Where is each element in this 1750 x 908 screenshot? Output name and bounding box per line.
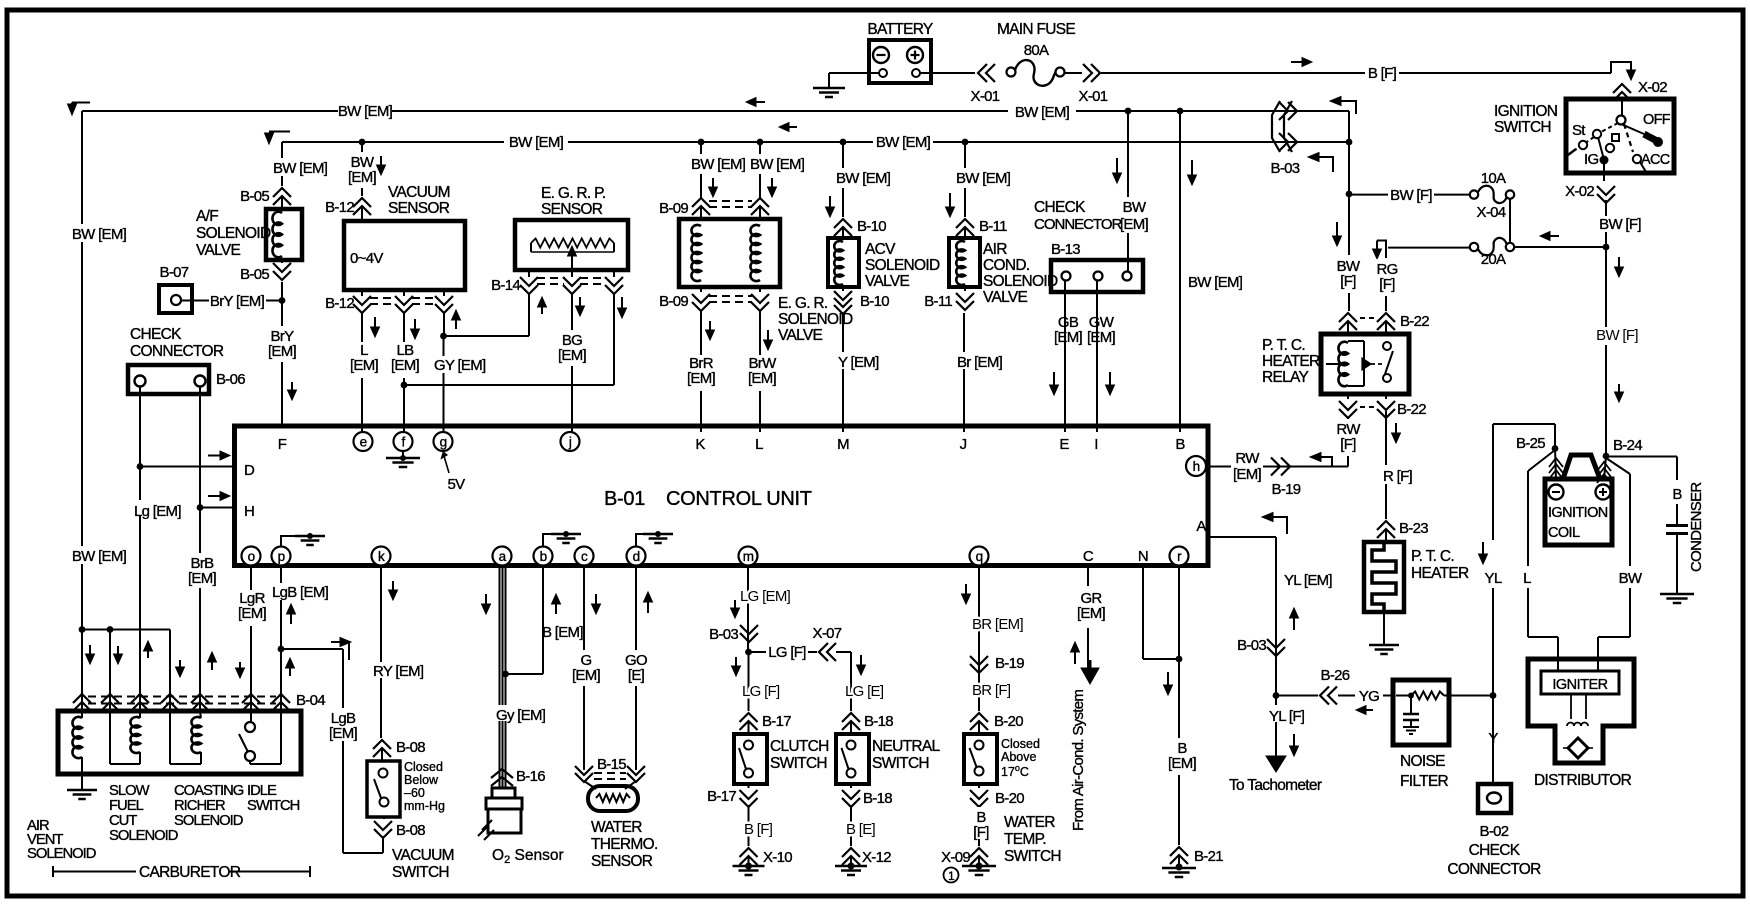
wire B[EM] pin b branch xyxy=(542,565,544,674)
arrow G xyxy=(595,594,597,605)
label L EM xyxy=(348,342,380,378)
vacuum sensor xyxy=(344,221,465,290)
svg-text:[EM]: [EM] xyxy=(1233,466,1262,483)
wire EGRP wiper BG to pin j xyxy=(571,293,573,432)
wire between fuses xyxy=(1509,199,1511,243)
svg-text:SENSOR: SENSOR xyxy=(591,853,653,870)
svg-text:DISTRIBUTOR: DISTRIBUTOR xyxy=(1534,772,1632,789)
svg-text:[EM]: [EM] xyxy=(558,347,587,364)
svg-text:B-18: B-18 xyxy=(864,713,893,730)
svg-text:o: o xyxy=(248,549,255,564)
idle switch xyxy=(245,722,255,732)
svg-text:BW [EM]: BW [EM] xyxy=(72,548,127,565)
check connector B-13 xyxy=(1051,260,1143,292)
pin h xyxy=(1186,456,1206,476)
label BW EM at B-13 xyxy=(1117,197,1152,233)
svg-text:RW: RW xyxy=(1235,450,1260,467)
pin p xyxy=(272,547,291,566)
rotor symbol xyxy=(1568,738,1588,758)
wire BW[EM] to vacuum sensor xyxy=(361,142,363,152)
svg-text:B-03: B-03 xyxy=(709,626,738,643)
arrow carb4 xyxy=(179,660,181,668)
svg-text:B-15: B-15 xyxy=(597,756,626,773)
svg-text:[F]: [F] xyxy=(973,824,989,841)
svg-text:COASTING: COASTING xyxy=(174,783,244,799)
svg-text:BR [F]: BR [F] xyxy=(972,682,1011,699)
connector B-22 bottom xyxy=(1347,394,1349,399)
wire LG[F] branch to X-07 xyxy=(748,651,766,653)
svg-text:SWITCH: SWITCH xyxy=(392,864,449,881)
node AC solenoid drop xyxy=(962,139,969,146)
arrow BrY wire xyxy=(291,382,293,391)
svg-text:ACV: ACV xyxy=(865,241,896,258)
svg-text:NOISE: NOISE xyxy=(1400,753,1445,770)
wire noise filter to Y xyxy=(1449,695,1493,697)
svg-text:LG [E]: LG [E] xyxy=(845,683,884,700)
arrow GO up xyxy=(647,601,649,613)
svg-text:SWITCH: SWITCH xyxy=(872,755,929,772)
svg-text:B-24: B-24 xyxy=(1613,437,1642,454)
svg-text:THERMO.: THERMO. xyxy=(591,836,658,853)
connector X-01 right xyxy=(1083,64,1092,82)
svg-text:RICHER: RICHER xyxy=(174,798,225,814)
wire vacuum switch to LgB xyxy=(382,836,384,853)
svg-text:c: c xyxy=(581,549,588,564)
svg-text:AIR: AIR xyxy=(983,241,1007,258)
ground pin d internal xyxy=(636,534,658,546)
connector X-12 xyxy=(842,848,860,857)
pin c xyxy=(575,547,594,566)
svg-text:B [E]: B [E] xyxy=(846,821,876,838)
svg-text:5V: 5V xyxy=(448,476,466,493)
svg-text:B-10: B-10 xyxy=(860,293,889,310)
clutch switch B-17 xyxy=(734,734,767,784)
svg-text:[EM]: [EM] xyxy=(748,370,777,387)
svg-text:a: a xyxy=(499,549,507,564)
svg-text:A/F: A/F xyxy=(196,208,218,225)
svg-text:BW [EM]: BW [EM] xyxy=(72,226,127,243)
svg-text:BW [EM]: BW [EM] xyxy=(273,160,328,177)
svg-text:St: St xyxy=(1572,122,1586,139)
wire L coil to igniter xyxy=(1528,450,1555,471)
wire B[E] neutral xyxy=(850,805,852,846)
svg-text:OFF: OFF xyxy=(1643,112,1671,128)
connector B-11 bottom xyxy=(964,287,966,291)
svg-text:FUEL: FUEL xyxy=(109,798,144,814)
wire BW[EM] to EGR coil2 xyxy=(759,142,761,154)
label Gy EM xyxy=(494,705,544,721)
svg-text:B [F]: B [F] xyxy=(1368,65,1397,82)
svg-text:BW [EM]: BW [EM] xyxy=(956,170,1011,187)
svg-text:BrY [EM]: BrY [EM] xyxy=(210,293,265,310)
svg-text:TEMP.: TEMP. xyxy=(1004,831,1046,848)
ground battery xyxy=(828,73,830,87)
arrow YL coil xyxy=(1482,542,1484,555)
arrow EGR2 xyxy=(771,178,773,188)
svg-text:BW [EM]: BW [EM] xyxy=(509,134,564,151)
label LgR EM xyxy=(235,590,269,626)
connector X-07 xyxy=(819,643,828,661)
svg-text:B-01: B-01 xyxy=(604,488,645,510)
arrow relay BW xyxy=(1336,222,1338,237)
node BrY xyxy=(279,297,286,304)
svg-text:B-05: B-05 xyxy=(240,188,269,205)
wiper arrow EGRP xyxy=(571,255,573,266)
wire EGRP right to LB node xyxy=(613,293,615,385)
wire LgB pin p to idle switch xyxy=(280,565,282,764)
wire GB to pin E xyxy=(1064,281,1066,432)
marker arrow LgB branch xyxy=(331,642,349,660)
arrow carb7 up xyxy=(289,667,291,676)
ground neutral xyxy=(850,857,852,866)
svg-text:–60: –60 xyxy=(404,786,425,800)
arrow RY xyxy=(392,581,394,591)
connector B-17 top xyxy=(740,713,758,722)
wire Lg B-06 to coil2 xyxy=(139,387,141,712)
svg-text:BW [F]: BW [F] xyxy=(1390,187,1432,204)
label Lg EM xyxy=(130,500,177,516)
svg-text:e: e xyxy=(360,435,367,450)
svg-text:IGNITION: IGNITION xyxy=(1494,103,1557,120)
svg-text:IGNITER: IGNITER xyxy=(1552,677,1607,693)
node ACV drop xyxy=(840,139,847,146)
svg-text:SWITCH: SWITCH xyxy=(1004,848,1061,865)
arrow YL up xyxy=(1293,617,1295,630)
connector B-10 bottom xyxy=(842,287,844,291)
svg-text:RY [EM]: RY [EM] xyxy=(373,663,424,680)
connector B-17 bottom xyxy=(748,784,750,788)
svg-text:SOLENOID: SOLENOID xyxy=(196,225,271,242)
marker arrow bus1 end xyxy=(1340,101,1356,114)
svg-text:80A: 80A xyxy=(1024,42,1049,59)
O2 sensor xyxy=(492,788,515,798)
svg-text:E. G. R.: E. G. R. xyxy=(778,295,828,312)
wire LG[F] down xyxy=(748,652,750,711)
wire BrR to pin K xyxy=(700,311,702,432)
igniter xyxy=(1541,671,1619,694)
svg-text:X-02: X-02 xyxy=(1565,183,1594,200)
pin q xyxy=(970,547,989,566)
wire D stub xyxy=(140,466,234,468)
label BrB EM xyxy=(186,553,219,588)
svg-text:Closed: Closed xyxy=(404,760,443,774)
wire bus BW[EM] lower xyxy=(269,131,290,133)
svg-text:YL [EM]: YL [EM] xyxy=(1284,572,1332,589)
svg-text:J: J xyxy=(960,436,967,453)
svg-text:X-01: X-01 xyxy=(971,88,1000,105)
svg-text:VALVE: VALVE xyxy=(196,242,241,259)
svg-text:[EM]: [EM] xyxy=(1120,216,1149,233)
marker arrow RW xyxy=(1320,457,1332,467)
wire A to tachometer junction xyxy=(1208,536,1276,538)
wire BW[EM] to pin B xyxy=(1179,111,1181,432)
wire pin h RW[EM] xyxy=(1206,466,1348,468)
wire RY pin k to vacuum switch xyxy=(380,565,382,738)
wire LB[EM] to pin f xyxy=(403,312,405,432)
svg-text:B-09: B-09 xyxy=(659,200,688,217)
connector B-09 bottom xyxy=(700,287,702,292)
arrow YL F xyxy=(1293,734,1295,747)
wire BW[F] to coil B-24 xyxy=(1605,247,1607,328)
arrow YG left xyxy=(1365,709,1373,711)
arrow carb5 up xyxy=(211,661,213,670)
svg-text:[EM]: [EM] xyxy=(391,357,420,374)
svg-text:X-10: X-10 xyxy=(763,849,792,866)
pin g xyxy=(434,432,453,451)
svg-text:[EM]: [EM] xyxy=(572,667,601,684)
PTC heater B-23 xyxy=(1364,542,1404,612)
wire BrY B-07 to node xyxy=(181,300,209,302)
svg-text:X-12: X-12 xyxy=(862,849,891,866)
svg-text:[EM]: [EM] xyxy=(329,725,358,742)
svg-text:SENSOR: SENSOR xyxy=(388,200,450,217)
svg-text:BW [EM]: BW [EM] xyxy=(750,156,805,173)
svg-text:VALVE: VALVE xyxy=(983,289,1028,306)
node EGR2 drop xyxy=(757,139,764,146)
svg-text:B-05: B-05 xyxy=(240,266,269,283)
vacuum switch B-08 xyxy=(367,761,400,817)
wire bus into carburetor xyxy=(79,626,86,633)
pickup coil xyxy=(1570,694,1572,719)
arrow R F xyxy=(1395,423,1397,434)
svg-text:B-18: B-18 xyxy=(863,790,892,807)
label BrY EM xyxy=(266,326,299,362)
wire BrB B-06 to coil3 xyxy=(199,387,201,712)
connector B-22 top xyxy=(1339,313,1357,322)
carburetor box xyxy=(58,711,301,774)
ground pin f internal xyxy=(402,451,404,457)
check connector B-07 xyxy=(159,285,192,313)
wire B[F] water temp xyxy=(978,805,980,846)
arrow LG[F] xyxy=(735,657,737,667)
svg-text:B-25: B-25 xyxy=(1516,435,1545,452)
arrow LgB up xyxy=(290,613,292,624)
svg-text:IG: IG xyxy=(1584,151,1598,168)
svg-text:[F]: [F] xyxy=(1340,273,1356,290)
marker arrow bus2 end xyxy=(1318,157,1333,172)
label Y EM xyxy=(836,352,882,369)
svg-text:B-14: B-14 xyxy=(491,277,520,294)
wire Y to pin M xyxy=(842,313,844,432)
svg-text:X-04: X-04 xyxy=(1477,204,1506,221)
svg-text:VACUUM: VACUUM xyxy=(388,184,450,201)
svg-text:H: H xyxy=(244,503,254,520)
connector B-05 top xyxy=(273,188,291,197)
svg-text:CONNECTOR: CONNECTOR xyxy=(1447,861,1541,878)
svg-text:B-19: B-19 xyxy=(1272,481,1301,498)
node GY-EGRP xyxy=(440,333,447,340)
svg-text:L: L xyxy=(1523,570,1531,587)
svg-text:FILTER: FILTER xyxy=(1400,773,1449,790)
svg-text:YG: YG xyxy=(1359,688,1379,705)
arrow EGR1 xyxy=(712,178,714,188)
node bus1 B drop xyxy=(1177,108,1184,115)
arrow into D xyxy=(208,455,221,457)
node N-r join xyxy=(1176,656,1183,663)
svg-text:Below: Below xyxy=(404,773,439,787)
connector B-05 bottom xyxy=(281,260,283,263)
arrow GW xyxy=(1109,372,1111,386)
svg-text:BW [EM]: BW [EM] xyxy=(338,103,393,120)
arrow neutral drop xyxy=(860,655,862,666)
svg-text:[EM]: [EM] xyxy=(188,570,217,587)
svg-text:BATTERY: BATTERY xyxy=(867,21,933,38)
connector B-21 xyxy=(1170,847,1188,856)
svg-text:L: L xyxy=(755,436,763,453)
svg-text:p: p xyxy=(278,549,285,564)
battery B+ wire xyxy=(829,72,879,74)
svg-text:CLUTCH: CLUTCH xyxy=(770,738,829,755)
arrow carb2 xyxy=(117,646,119,655)
svg-text:[F]: [F] xyxy=(1379,276,1395,293)
wire BrW to pin L xyxy=(759,311,761,432)
connector B-18 top xyxy=(842,713,860,722)
node b to shield xyxy=(502,671,509,678)
node B-25 xyxy=(1552,445,1559,452)
wire bus BW[EM] upper xyxy=(72,102,90,104)
arrow B14-3 xyxy=(621,297,623,309)
svg-text:ACC: ACC xyxy=(1641,152,1670,168)
wire B-25 elbow xyxy=(1493,423,1555,425)
node LgB vacuum switch branch xyxy=(278,646,285,653)
svg-text:E. G. R. P.: E. G. R. P. xyxy=(541,185,605,202)
wire coil1 down xyxy=(81,630,83,719)
svg-text:B: B xyxy=(1175,436,1185,453)
svg-text:BW [EM]: BW [EM] xyxy=(1015,104,1070,121)
arrow on 20A wire xyxy=(1549,235,1559,237)
svg-text:E: E xyxy=(1059,436,1069,453)
svg-text:B-03: B-03 xyxy=(1237,637,1266,654)
check connector B-02 xyxy=(1478,784,1511,813)
svg-text:d: d xyxy=(633,549,640,564)
label G EM xyxy=(570,650,603,686)
connector X-02 top xyxy=(1613,84,1631,93)
wire fuse to X-01 right xyxy=(1064,72,1082,74)
crimp B-25 xyxy=(1555,449,1556,481)
ground condenser xyxy=(1660,593,1694,596)
svg-text:D: D xyxy=(244,462,255,479)
svg-text:B-09: B-09 xyxy=(659,293,688,310)
arrow on bus1 xyxy=(755,101,765,103)
svg-text:CONDENSER: CONDENSER xyxy=(1688,482,1705,572)
wire GR pin C xyxy=(1087,565,1089,586)
svg-text:[EM]: [EM] xyxy=(1168,755,1197,772)
svg-text:SOLENOID: SOLENOID xyxy=(27,846,96,862)
wire YL coil to junction xyxy=(1492,424,1494,540)
label RY EM xyxy=(371,662,423,678)
svg-text:YL: YL xyxy=(1485,570,1502,587)
connector B-09 top xyxy=(692,198,710,207)
arrow LB xyxy=(414,319,416,330)
wire RW relay to pin h xyxy=(1347,417,1349,467)
svg-text:VALVE: VALVE xyxy=(865,273,910,290)
EGR solenoid valve B-09 xyxy=(679,219,780,287)
label LgB EM branch xyxy=(326,708,361,741)
wire RG to relay xyxy=(1385,248,1387,258)
svg-text:NEUTRAL: NEUTRAL xyxy=(872,738,941,755)
svg-text:m: m xyxy=(743,549,754,564)
svg-text:B-16: B-16 xyxy=(516,768,545,785)
neutral switch B-18 xyxy=(836,734,869,784)
svg-text:B [EM]: B [EM] xyxy=(542,624,583,641)
node YG branch xyxy=(1273,692,1280,699)
fuse 20A xyxy=(1470,243,1478,251)
svg-text:HEATER: HEATER xyxy=(1411,565,1469,582)
solenoid coil2 slow fuel cut xyxy=(130,717,140,753)
svg-text:SOLENOID: SOLENOID xyxy=(983,273,1058,290)
wire G pin c to sensor xyxy=(583,565,585,770)
svg-text:B-22: B-22 xyxy=(1400,313,1429,330)
arrow carb3 up xyxy=(147,650,149,658)
to tachometer arrow xyxy=(1266,756,1286,772)
svg-text:CHECK: CHECK xyxy=(1469,842,1521,859)
label YL inline xyxy=(1483,568,1504,584)
wire Br to pin J xyxy=(963,313,965,432)
svg-text:R [F]: R [F] xyxy=(1383,468,1413,485)
svg-text:Br [EM]: Br [EM] xyxy=(957,354,1003,371)
arrow BR xyxy=(965,584,967,595)
connector X-02 bottom xyxy=(1597,186,1615,195)
pin a xyxy=(493,547,512,566)
svg-text:CUT: CUT xyxy=(109,813,137,829)
water temp switch B-20 xyxy=(964,734,997,784)
connector B-03 clutch xyxy=(740,625,758,634)
node LB-EGRP xyxy=(401,382,408,389)
wire condenser branch xyxy=(1606,456,1677,458)
circled 1 note xyxy=(944,868,959,883)
svg-text:B-22: B-22 xyxy=(1397,401,1426,418)
svg-text:B: B xyxy=(1672,486,1682,503)
wire LgB branch to vacuum switch xyxy=(281,648,343,650)
connector X-01 left xyxy=(978,64,987,82)
svg-text:[EM]: [EM] xyxy=(348,169,377,186)
arrow GB xyxy=(1053,372,1055,386)
battery xyxy=(869,40,931,83)
wire X-07 to neutral switch xyxy=(836,651,851,653)
svg-text:K: K xyxy=(695,436,705,453)
wire BW[F] bus drop to relay xyxy=(1348,194,1350,255)
svg-text:CONTROL UNIT: CONTROL UNIT xyxy=(666,488,812,510)
svg-text:[E]: [E] xyxy=(628,667,645,684)
svg-text:WATER: WATER xyxy=(1004,814,1055,831)
svg-text:B-02: B-02 xyxy=(1480,823,1509,840)
arrow B14-1 xyxy=(541,306,543,314)
node EGR1 drop xyxy=(698,139,705,146)
svg-text:B-13: B-13 xyxy=(1051,241,1080,258)
svg-text:SOLENOID: SOLENOID xyxy=(109,828,178,844)
svg-text:To Tachometer: To Tachometer xyxy=(1229,777,1322,794)
arrow pin b up xyxy=(555,603,557,614)
wire H stub xyxy=(200,507,234,509)
marker arrow A xyxy=(1272,517,1287,534)
pin f xyxy=(394,432,413,451)
wire BW[EM] to ACV xyxy=(842,142,844,168)
svg-text:BW [EM]: BW [EM] xyxy=(1188,274,1243,291)
svg-text:P. T. C.: P. T. C. xyxy=(1262,337,1305,354)
svg-text:LG [F]: LG [F] xyxy=(742,683,780,700)
node Y junction xyxy=(1490,692,1497,699)
svg-text:COND.: COND. xyxy=(983,257,1029,274)
wire BW[F] to fuse 10A xyxy=(1349,194,1388,196)
node H branch xyxy=(197,504,204,511)
check connector B-06 xyxy=(128,365,209,394)
arrow BrR xyxy=(709,321,711,331)
svg-text:CHECK: CHECK xyxy=(130,326,182,343)
arrow B14-2 xyxy=(579,297,581,307)
svg-text:0~4V: 0~4V xyxy=(350,250,383,267)
pin e xyxy=(354,432,373,451)
node B-24 xyxy=(1603,453,1610,460)
